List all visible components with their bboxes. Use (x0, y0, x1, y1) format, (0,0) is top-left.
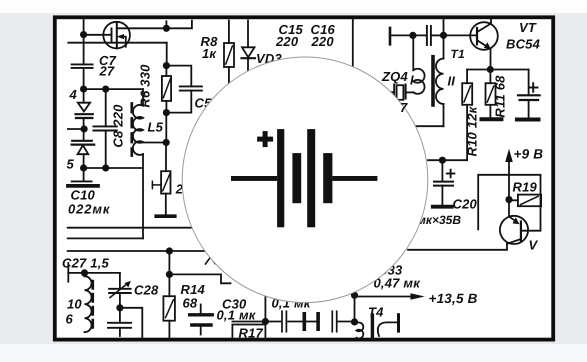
+9V arrow (508, 160, 510, 200)
wire: chain down (165, 113, 167, 143)
wire A lower-left (68, 227, 193, 229)
inductor L5 (142, 89, 144, 106)
svg-text:220: 220 (275, 34, 299, 49)
transistor VT1 source arrow (120, 37, 126, 47)
transistor VT1 gate bar (111, 28, 113, 42)
svg-text:6: 6 (66, 312, 74, 327)
svg-text:5: 5 (67, 157, 75, 172)
capacitor C21 (electrolytic) (528, 70, 530, 95)
node: coil top dot (82, 270, 87, 275)
capacitor C7 (72, 63, 93, 65)
wire: to C5 top corner (166, 66, 191, 87)
svg-text:C20: C20 (453, 196, 478, 211)
battery icon: long plate 1 (277, 129, 284, 227)
svg-text:II: II (448, 74, 456, 89)
capacitor C17 (426, 26, 428, 45)
svg-text:C10: C10 (71, 187, 96, 202)
svg-text:+9 В: +9 В (514, 147, 544, 162)
wire: corner down to R6 (166, 43, 168, 66)
node: emitter dot (488, 67, 493, 72)
schematic border frame (55, 17, 553, 339)
transformer T4 right winding (378, 322, 397, 336)
varicap VD2 (pin 5) (72, 140, 92, 142)
wire: tank top rail (84, 88, 143, 90)
wire B lower-left (68, 237, 143, 239)
svg-text:022мк: 022мк (68, 202, 111, 217)
wire: hook to open terminal (166, 21, 192, 29)
node: +13.5V dot (352, 293, 357, 298)
resistor R11 (489, 70, 491, 84)
svg-text:0,47 мк: 0,47 мк (374, 276, 422, 291)
wire: source bus y=42.7 (68, 42, 166, 44)
svg-text:7: 7 (400, 100, 408, 115)
label + of C21 (529, 87, 538, 89)
capacitor C5 (180, 85, 202, 87)
capacitor C28 (variable) (119, 273, 121, 289)
transistor V (500, 216, 528, 244)
wire: base lead VT (444, 34, 477, 36)
wire: tank bottom rail (84, 167, 143, 169)
wire: emitter rail (467, 69, 528, 71)
svg-text:C8 220: C8 220 (111, 104, 126, 148)
ground bar C21 (517, 118, 539, 122)
resistor R (value 2...) (161, 171, 170, 193)
wire: inter-diode stub (68, 128, 84, 130)
node: R19 dot (506, 197, 511, 202)
transformer T1 secondary (443, 35, 445, 58)
node: tap dot (164, 140, 169, 145)
node: inter-diode dot (81, 126, 86, 131)
resistor R8 (228, 21, 230, 44)
svg-text:T4: T4 (368, 305, 384, 320)
node: C28 bottom dot (117, 305, 122, 310)
transformer T4 left winding (355, 322, 364, 339)
capacitor 0,1mk A (281, 311, 283, 331)
resistor R10 (466, 70, 468, 84)
wire to transistor V (508, 200, 510, 217)
node: T4 top dot (352, 319, 357, 324)
battery icon: short plate 1 (292, 153, 301, 203)
capacitor C10 (83, 168, 85, 181)
svg-text:VT: VT (519, 20, 537, 35)
terminal stub C27 (67, 263, 69, 282)
terminal bar top right (389, 28, 392, 44)
transformer T4 core (371, 315, 374, 338)
ground bar R11 (482, 117, 502, 121)
battery icon: long plate 2 (307, 129, 315, 227)
wire: step branch right (169, 274, 230, 283)
svg-text:R19: R19 (513, 179, 538, 194)
svg-text:BC54: BC54 (506, 37, 541, 52)
svg-text:ZQ4: ZQ4 (381, 69, 408, 84)
wire down to T1 primary (412, 35, 414, 70)
svg-text:L5: L5 (148, 120, 164, 135)
capacitor 0,1mk B (316, 314, 320, 329)
node: dot at 443.5 (441, 33, 446, 38)
svg-text:220: 220 (311, 34, 335, 49)
svg-text:T1: T1 (451, 47, 466, 61)
svg-text:C28: C28 (134, 282, 159, 297)
wire: vertical link (354, 295, 356, 322)
capacitor C8 (105, 89, 107, 126)
ground bar C20 (433, 205, 452, 209)
wire: C27 node wire (68, 272, 120, 274)
wire between caps (306, 321, 316, 323)
battery icon: plus sign (257, 137, 273, 142)
svg-text:+13,5 В: +13,5 В (429, 291, 478, 306)
node: C8 top dot (103, 86, 108, 91)
transistor VT1 channel bar (116, 22, 118, 48)
capacitor below C28 (119, 308, 121, 323)
wire: rail below VD2 (83, 154, 85, 168)
label + of C20 (447, 173, 455, 175)
wire: L5 tap (139, 142, 166, 144)
wire: chain down to R (165, 143, 167, 172)
transformer T1 core (431, 57, 435, 105)
wire: left rail top stub (83, 19, 85, 34)
inductor L (10/6) (85, 276, 92, 332)
resistor wiper tick (151, 181, 153, 188)
node: gate junction dot (81, 32, 86, 37)
svg-text:R11 68: R11 68 (493, 75, 508, 118)
node: R6 top dot (164, 63, 169, 68)
transistor VT (BC54) (470, 22, 498, 50)
svg-text:C27 1,5: C27 1,5 (62, 256, 110, 271)
resistor R6 (trimmer) (162, 76, 171, 101)
varicap VD1 (pin 4) (78, 103, 90, 112)
svg-text:4: 4 (69, 87, 78, 102)
svg-text:10: 10 (67, 297, 82, 312)
node: C8 bottom dot (103, 165, 108, 170)
battery icon: left lead (231, 176, 277, 181)
wire: gate lead to VT1 (84, 34, 112, 36)
node: R6 bottom dot (164, 110, 169, 115)
wire: step to frame (120, 308, 142, 339)
wire: +13.5V line with arrow (355, 296, 418, 298)
capacitor C20 (electrolytic) (441, 160, 443, 181)
transistor VT1 (dual-gate MOSFET) circle (103, 22, 130, 49)
capacitor C7 top lead (83, 35, 85, 65)
node: tank top-left dot (81, 86, 86, 91)
svg-text:R17: R17 (239, 326, 264, 341)
diode VD3 (247, 21, 249, 48)
crystal ZQ4 (389, 91, 395, 93)
wire: up to frame (443, 19, 445, 35)
resistor R14 (168, 251, 170, 296)
wire: vertical net x=352.8 (352, 19, 354, 68)
inductor L5 core (dashed) (130, 104, 133, 156)
svg-text:1к: 1к (202, 46, 217, 61)
wire C lower-left (68, 250, 205, 252)
wire: VT1 drain to node (117, 27, 167, 29)
svg-text:V: V (529, 238, 539, 253)
svg-text:0,1 мк: 0,1 мк (217, 308, 257, 323)
svg-text:мк×35В: мк×35В (417, 213, 461, 227)
battery icon: right lead (332, 176, 377, 181)
svg-text:68: 68 (183, 295, 198, 310)
wire: base net of V (478, 175, 540, 231)
transformer T1 primary (413, 69, 424, 94)
node: R14 top dot (167, 248, 172, 253)
wire: stub up from drain node (165, 21, 167, 28)
node: C20 dot (440, 158, 445, 163)
node: drain junction dot (164, 26, 169, 31)
caret mark (206, 257, 216, 264)
svg-text:27: 27 (99, 63, 115, 78)
resistor R19 (trimmer) (509, 199, 518, 201)
node: tank bottom-left dot (81, 165, 86, 170)
wire to T4 node (288, 321, 302, 323)
ground bar under resistor (165, 194, 167, 215)
wire: rail below C7 (83, 68, 85, 89)
bottom light strip (0, 344, 587, 362)
svg-text:R10 12к: R10 12к (465, 105, 480, 156)
big white circle overlay (182, 57, 428, 303)
inductor core dashed (92, 281, 95, 331)
resistor R17 (232, 321, 280, 323)
svg-text:R6 330: R6 330 (138, 64, 153, 108)
top white strip (0, 0, 587, 13)
node: branch dot (167, 272, 172, 277)
capacitor C30 (200, 305, 202, 314)
wire to C17 (390, 34, 426, 36)
battery icon: short plate 2 (323, 153, 332, 203)
wire: C20 rail (428, 159, 467, 161)
svg-text:I: I (410, 73, 414, 88)
node: dot at 412.9 (410, 33, 415, 38)
wire: left rail through diodes (83, 89, 85, 103)
transformer T4 terminal bar (397, 315, 400, 331)
